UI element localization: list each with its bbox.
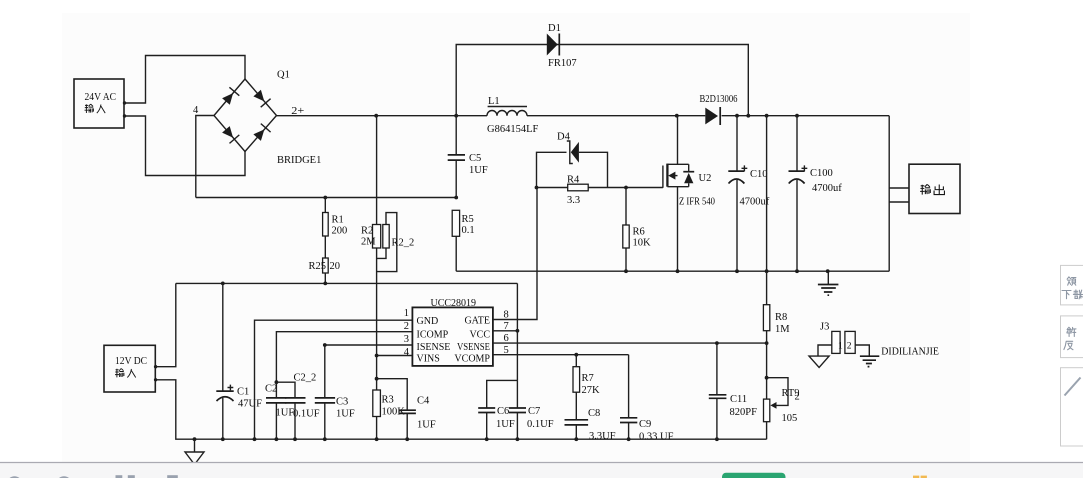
diode D1 bypass branch xyxy=(456,23,748,116)
output vertical and stubs xyxy=(889,116,909,272)
capacitor C1 xyxy=(216,283,262,439)
pin8 GATE wire xyxy=(493,188,537,320)
svg-text:R2_2: R2_2 xyxy=(392,238,415,249)
svg-text:C6: C6 xyxy=(497,406,509,417)
svg-text:C10: C10 xyxy=(750,169,768,180)
connector J3 xyxy=(820,322,855,354)
svg-text:VCOMP: VCOMP xyxy=(454,354,490,365)
24V AC input box xyxy=(74,79,126,128)
resistor R8 xyxy=(763,116,790,440)
pin7 VCC wire xyxy=(493,283,519,380)
schematic canvas xyxy=(62,13,970,462)
wire AC pin1 to bridge top xyxy=(125,56,246,104)
svg-text:GND: GND xyxy=(417,316,439,327)
svg-text:47UF: 47UF xyxy=(238,399,262,410)
capacitor C100 xyxy=(789,116,843,272)
capacitor C9 xyxy=(620,355,674,443)
pin1 GND wire xyxy=(255,320,413,439)
svg-text:2: 2 xyxy=(404,321,409,332)
J3 pin1 wire to chassis gnd xyxy=(809,345,832,368)
capacitor C10 xyxy=(728,116,769,272)
diode B2D13006 xyxy=(700,94,738,125)
svg-text:R3: R3 xyxy=(382,395,394,406)
svg-text:G864154LF: G864154LF xyxy=(487,124,538,135)
capacitor C4 xyxy=(377,379,436,440)
svg-text:4700uf: 4700uf xyxy=(812,183,842,194)
resistor R6 xyxy=(623,188,651,272)
svg-text:6: 6 xyxy=(504,333,509,344)
J3 pin2 wire to earth gnd xyxy=(855,345,879,367)
resistor R3 xyxy=(373,377,405,418)
svg-text:C11: C11 xyxy=(730,394,747,405)
svg-text:3: 3 xyxy=(404,334,409,345)
svg-text:105: 105 xyxy=(782,413,798,424)
svg-text:2M: 2M xyxy=(361,237,376,248)
svg-text:1UF: 1UF xyxy=(336,409,355,420)
wire 12V pin2 to bottom rail xyxy=(156,380,767,441)
svg-text:Q1: Q1 xyxy=(277,70,290,81)
svg-text:1UF: 1UF xyxy=(417,420,436,431)
svg-text:0.1UF: 0.1UF xyxy=(527,419,554,430)
svg-text:R1: R1 xyxy=(332,215,344,226)
svg-text:C3: C3 xyxy=(336,397,348,408)
svg-text:R8: R8 xyxy=(775,312,787,323)
svg-text:C1: C1 xyxy=(237,387,249,398)
svg-text:L1: L1 xyxy=(488,96,500,107)
svg-text:4700uf: 4700uf xyxy=(740,197,770,208)
svg-text:ISENSE: ISENSE xyxy=(417,342,451,353)
svg-text:C9: C9 xyxy=(639,419,651,430)
svg-text:24V AC: 24V AC xyxy=(85,92,117,103)
svg-text:20: 20 xyxy=(330,261,341,272)
svg-text:DIDILIANJIE: DIDILIANJIE xyxy=(881,347,939,358)
wire 12V pin1 xyxy=(156,283,176,366)
positive bus from bridge to output xyxy=(277,114,890,118)
svg-text:VSENSE: VSENSE xyxy=(457,342,490,353)
wire AC pin2 to bridge bottom xyxy=(125,116,246,176)
resistor R25 xyxy=(309,258,341,283)
svg-text:1: 1 xyxy=(404,308,409,319)
svg-text:3.3UF: 3.3UF xyxy=(589,431,616,442)
label DIDILIANJIE xyxy=(881,347,939,358)
svg-text:GATE: GATE xyxy=(464,316,490,327)
svg-text:3.3: 3.3 xyxy=(567,195,580,206)
svg-text:1M: 1M xyxy=(775,324,790,335)
svg-text:0.1: 0.1 xyxy=(462,225,475,236)
node 4 label xyxy=(193,105,199,116)
resistor R1 xyxy=(323,198,348,259)
control rail 12V xyxy=(176,282,518,286)
svg-text:4: 4 xyxy=(193,105,199,116)
svg-text:B2D13006: B2D13006 xyxy=(700,94,738,105)
capacitor C11 xyxy=(709,343,757,439)
svg-text:R4: R4 xyxy=(567,175,580,186)
svg-text:1UF: 1UF xyxy=(276,408,295,419)
resistor R5 xyxy=(452,210,474,271)
svg-text:2: 2 xyxy=(795,392,800,403)
svg-text:R25: R25 xyxy=(309,261,327,272)
pin3 ISENSE wire / capacitor C3 xyxy=(315,343,413,439)
capacitor C6 xyxy=(478,380,517,439)
wire bridge left vertex down to neg wire xyxy=(196,116,214,198)
svg-text:2: 2 xyxy=(847,342,852,352)
svg-text:J3: J3 xyxy=(820,322,829,333)
svg-text:12V DC: 12V DC xyxy=(115,356,147,367)
svg-text:200: 200 xyxy=(332,226,348,237)
svg-text:1UF: 1UF xyxy=(496,419,515,430)
svg-text:C8: C8 xyxy=(588,408,600,419)
right side panel buttons xyxy=(1061,265,1083,305)
svg-text:VINS: VINS xyxy=(417,354,440,365)
resistor R7 xyxy=(573,355,600,420)
svg-text:0.1UF: 0.1UF xyxy=(293,409,320,420)
svg-text:1: 1 xyxy=(838,342,843,352)
svg-text:C100: C100 xyxy=(810,168,833,179)
earth ground upper xyxy=(818,271,839,295)
zener D4 loop xyxy=(537,132,608,188)
svg-text:10K: 10K xyxy=(633,238,652,249)
svg-text:C4: C4 xyxy=(417,396,430,407)
svg-text:D1: D1 xyxy=(548,23,561,34)
svg-text:FR107: FR107 xyxy=(548,58,577,69)
MOSFET U2 xyxy=(663,116,715,272)
capacitor C2_2 xyxy=(276,373,319,440)
bridge rectifier BRIDGE1 xyxy=(214,79,277,152)
svg-text:0.33 UF: 0.33 UF xyxy=(639,432,674,443)
svg-text:ICOMP: ICOMP xyxy=(417,330,449,341)
svg-text:C2: C2 xyxy=(265,384,277,395)
inductor L1 xyxy=(487,96,538,135)
upper gnd return wire xyxy=(456,269,889,273)
svg-text:C2_2: C2_2 xyxy=(294,373,317,384)
12V DC input box xyxy=(104,345,157,392)
label BRIDGE1 xyxy=(277,155,321,166)
bottom toolbar xyxy=(0,463,1083,478)
pin5 VCOMP wire xyxy=(493,353,629,357)
potentiometer RT9 xyxy=(764,376,800,424)
svg-text:R6: R6 xyxy=(633,227,645,238)
svg-text:4: 4 xyxy=(404,347,410,358)
capacitor C5 xyxy=(448,116,488,198)
pin2 ICOMP wire / capacitor C2 xyxy=(265,332,412,440)
svg-text:D4: D4 xyxy=(557,132,571,143)
svg-text:U2: U2 xyxy=(699,173,712,184)
svg-text:R5: R5 xyxy=(462,214,474,225)
svg-text:1UF: 1UF xyxy=(469,165,488,176)
svg-text:Z IFR 540: Z IFR 540 xyxy=(679,197,715,208)
output box 输出 xyxy=(909,164,960,213)
svg-text:C7: C7 xyxy=(528,406,540,417)
pin4 VINS wire xyxy=(375,354,413,358)
neg sense wire xyxy=(196,196,458,200)
svg-text:820PF: 820PF xyxy=(730,407,758,418)
capacitor C8 xyxy=(565,408,616,442)
label Q1 xyxy=(277,70,290,81)
resistor R2 xyxy=(361,116,381,440)
resistor R4 and gate wire xyxy=(535,175,663,207)
svg-text:BRIDGE1: BRIDGE1 xyxy=(277,155,321,166)
svg-text:27K: 27K xyxy=(582,385,601,396)
IC UCC28019 xyxy=(404,298,509,366)
pin6 VSENSE wire xyxy=(493,341,769,345)
svg-text:VCC: VCC xyxy=(469,330,490,341)
chassis ground lower left xyxy=(185,439,204,464)
svg-text:R7: R7 xyxy=(582,373,594,384)
svg-text:UCC28019: UCC28019 xyxy=(431,298,477,309)
svg-text:R2: R2 xyxy=(361,226,373,237)
resistor R2_2 xyxy=(377,213,415,272)
node 2+ label xyxy=(291,106,304,117)
svg-text:100K: 100K xyxy=(382,407,406,418)
capacitor C7 xyxy=(509,380,554,439)
svg-text:C5: C5 xyxy=(469,153,481,164)
